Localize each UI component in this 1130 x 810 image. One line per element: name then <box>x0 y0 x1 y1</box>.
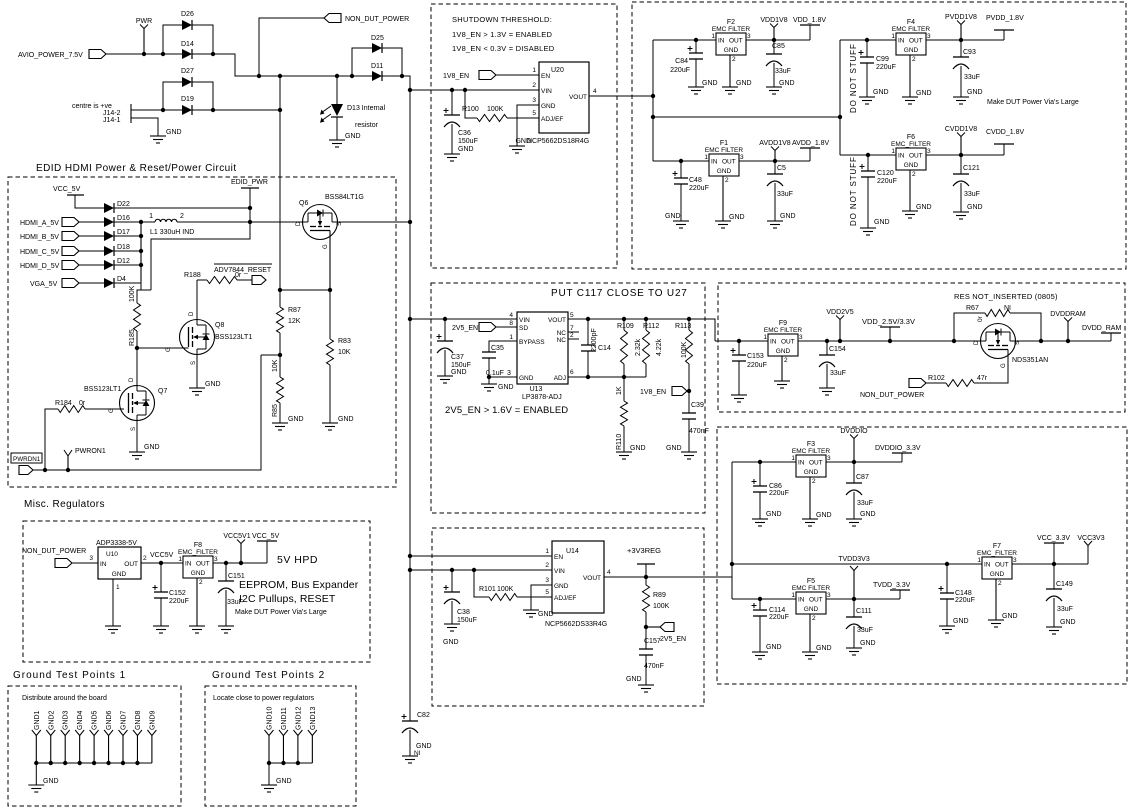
wire R89 bottom lead <box>645 612 647 649</box>
wire F1 row input <box>653 160 709 162</box>
wire D26 bypass up <box>163 25 182 54</box>
svg-text:Make DUT Power Via's Large: Make DUT Power Via's Large <box>987 99 1079 106</box>
svg-text:LP3878-ADJ: LP3878-ADJ <box>522 394 562 401</box>
svg-text:C114: C114 <box>769 607 785 614</box>
svg-text:Locate close to power regulato: Locate close to power regulators <box>213 695 315 702</box>
svg-text:GND: GND <box>345 133 361 140</box>
svg-text:C149: C149 <box>1056 581 1073 588</box>
junction pwr tap <box>888 339 892 343</box>
junction bypass right D26 <box>211 52 215 56</box>
svg-text:S: S <box>191 361 197 365</box>
svg-text:TVDD3V3: TVDD3V3 <box>838 556 870 563</box>
svg-text:GND: GND <box>916 90 932 97</box>
svg-text:R85: R85 <box>272 404 279 417</box>
junction C149 tap <box>1052 562 1056 566</box>
wire R188 right <box>237 279 252 281</box>
junction D22 row node <box>248 206 252 210</box>
junction VCC5V1 tap <box>239 561 243 565</box>
ground Q7 <box>129 451 145 453</box>
junction R100 tap <box>463 88 467 92</box>
wire R113 bottom lead <box>688 364 690 391</box>
junction gtp1 node 5 <box>106 761 110 765</box>
wire R184 to gate <box>85 408 124 410</box>
svg-text:5V HPD: 5V HPD <box>277 554 318 566</box>
wire C149 top lead <box>1053 564 1055 589</box>
wire Q6 source to bus <box>338 221 411 223</box>
svg-text:5: 5 <box>532 110 536 117</box>
svg-text:1: 1 <box>891 33 895 40</box>
wire C48 top lead <box>680 161 682 178</box>
junction bus D18 <box>139 249 143 253</box>
svg-text:Q6: Q6 <box>299 200 308 207</box>
svg-text:NON_DUT_POWER: NON_DUT_POWER <box>345 16 409 23</box>
svg-text:J14-1: J14-1 <box>103 117 121 124</box>
junction gtp1 node 3 <box>77 761 81 765</box>
svg-text:1: 1 <box>116 584 120 591</box>
svg-text:1V8_EN < 0.3V = DISABLED: 1V8_EN < 0.3V = DISABLED <box>452 44 555 53</box>
svg-text:NC: NC <box>557 337 567 344</box>
ground C35/U13 <box>481 383 497 385</box>
svg-text:C111: C111 <box>856 608 872 615</box>
junction C14 tap <box>586 317 590 321</box>
svg-text:VDD2V5: VDD2V5 <box>826 309 853 316</box>
svg-text:1: 1 <box>178 556 182 563</box>
wire C153 bottom lead <box>738 361 740 395</box>
wire F3 row input <box>732 461 796 463</box>
svg-text:4: 4 <box>607 569 611 576</box>
ground C120 <box>860 227 876 229</box>
wire D13 anode <box>336 76 338 104</box>
svg-text:1V8_EN > 1.3V = ENABLED: 1V8_EN > 1.3V = ENABLED <box>452 30 552 39</box>
svg-text:C152: C152 <box>169 590 186 597</box>
wire 3.3V feeder vertical <box>731 462 733 599</box>
junction R87 top <box>278 288 282 292</box>
svg-text:R67: R67 <box>966 305 979 312</box>
svg-text:2: 2 <box>998 580 1002 587</box>
svg-text:3: 3 <box>1013 557 1017 564</box>
svg-text:GND: GND <box>736 80 752 87</box>
svg-text:C99: C99 <box>876 56 889 63</box>
svg-text:C85: C85 <box>772 43 785 50</box>
svg-text:100K: 100K <box>497 586 514 593</box>
junction gtp1 node 0 <box>34 761 38 765</box>
wire 2V5_EN to SD <box>496 326 517 328</box>
wire L1 to Q6 <box>177 221 302 223</box>
svg-text:150uF: 150uF <box>451 362 471 369</box>
wire Q8 drain <box>196 280 198 320</box>
svg-text:IN: IN <box>770 339 777 346</box>
svg-text:D: D <box>129 377 135 382</box>
wire EDID_PWR stem / elbow <box>151 188 250 290</box>
svg-text:D17: D17 <box>117 229 130 236</box>
ground C152 <box>153 625 169 627</box>
svg-text:HDMI_D_5V: HDMI_D_5V <box>20 263 60 270</box>
ground C85 <box>766 86 782 88</box>
svg-text:+3V3REG: +3V3REG <box>627 546 661 555</box>
junction gtp2 node 2 <box>296 761 300 765</box>
wire HDMI_C_5V to D18 <box>79 250 104 252</box>
wire C151 top lead <box>225 563 227 581</box>
svg-text:2: 2 <box>143 555 147 562</box>
svg-text:VIN: VIN <box>519 317 530 324</box>
junction bus D12 <box>139 263 143 267</box>
svg-text:1: 1 <box>149 213 153 220</box>
box NCP5662 3.3V regulator <box>432 528 704 706</box>
svg-text:IN: IN <box>798 460 805 467</box>
wire to main bus <box>382 76 410 90</box>
svg-text:GND: GND <box>112 571 127 578</box>
wire C120 top lead <box>867 155 869 171</box>
svg-text:IN: IN <box>185 561 192 568</box>
svg-text:C87: C87 <box>856 474 869 481</box>
svg-text:100K: 100K <box>681 341 688 358</box>
wire VIN wire U20 <box>410 89 539 91</box>
svg-text:OUT: OUT <box>729 38 743 45</box>
wire gtp1 gnd stem <box>35 763 37 785</box>
svg-text:NCP5662DS18R4G: NCP5662DS18R4G <box>527 138 589 145</box>
wire R87-R83 tie <box>280 289 330 291</box>
junction bypass left D25 <box>350 74 354 78</box>
svg-text:GND: GND <box>953 618 969 625</box>
junction R184 on pwrdn <box>43 468 47 472</box>
wire left bus 1.8V box <box>652 40 654 161</box>
svg-text:VDD1V8: VDD1V8 <box>760 17 787 24</box>
wire D4 cathode <box>114 282 141 284</box>
wire U14 EN wire <box>410 555 552 557</box>
svg-text:C35: C35 <box>491 345 504 352</box>
svg-text:GND: GND <box>702 80 718 87</box>
svg-text:GND: GND <box>766 644 782 651</box>
svg-text:470nF: 470nF <box>644 663 664 670</box>
wire HDMI_D_5V to D12 <box>79 264 104 266</box>
svg-text:2: 2 <box>812 615 816 622</box>
svg-text:EN: EN <box>541 73 550 80</box>
svg-text:Ground Test Points 1: Ground Test Points 1 <box>13 670 126 681</box>
wire C114 bottom lead <box>759 616 761 652</box>
svg-text:GND: GND <box>276 778 292 785</box>
svg-text:C5: C5 <box>777 165 786 172</box>
svg-text:3: 3 <box>532 97 536 104</box>
wire C36 top lead <box>451 90 453 115</box>
svg-text:BYPASS: BYPASS <box>519 339 545 346</box>
wire C14 bottom lead <box>587 351 589 377</box>
svg-text:2200pF: 2200pF <box>591 328 598 352</box>
svg-text:1: 1 <box>763 334 767 341</box>
wire C5 top lead <box>774 161 776 174</box>
wire gtp1 bus <box>36 762 152 764</box>
svg-text:GND: GND <box>766 511 782 518</box>
svg-text:12K: 12K <box>288 318 301 325</box>
junction R87/R85 node <box>278 353 282 357</box>
svg-text:BSS123LT1: BSS123LT1 <box>84 386 121 393</box>
wire R100 to ADJ <box>507 117 539 119</box>
svg-text:6: 6 <box>570 369 574 376</box>
junction C154 tap <box>825 339 829 343</box>
svg-text:GND: GND <box>1002 613 1018 620</box>
svg-text:C153: C153 <box>747 353 764 360</box>
svg-text:L1 330uH IND: L1 330uH IND <box>150 229 194 236</box>
junction DVDDRAM tap <box>1066 339 1070 343</box>
ground C36 <box>444 153 460 155</box>
svg-text:EN: EN <box>554 554 563 561</box>
svg-text:2: 2 <box>732 56 736 63</box>
svg-text:4: 4 <box>593 88 597 95</box>
svg-text:AVIO_POWER_7.5V: AVIO_POWER_7.5V <box>18 52 83 59</box>
svg-text:VIN: VIN <box>554 568 565 575</box>
box EDID HDMI Power & Reset/Power Circuit <box>8 177 396 487</box>
wire F4 row input <box>840 39 896 41</box>
wire C120 bottom lead <box>867 177 869 228</box>
junction C35/gnd node <box>487 375 491 379</box>
op-amp U13 LP3878-ADJ <box>517 312 568 384</box>
wire U13 VOUT <box>568 319 715 341</box>
svg-text:S: S <box>337 222 343 226</box>
junction C5 tap <box>773 159 777 163</box>
svg-text:C37: C37 <box>451 354 464 361</box>
svg-text:2: 2 <box>570 332 574 339</box>
svg-text:2: 2 <box>180 213 184 220</box>
svg-text:F7: F7 <box>993 543 1001 550</box>
junction bypass right D25 <box>400 74 404 78</box>
wire vertical to EDID box <box>279 76 281 290</box>
wire C114 top lead <box>759 599 761 610</box>
svg-text:PWRDN1: PWRDN1 <box>13 456 41 463</box>
svg-text:VCC_5V: VCC_5V <box>252 533 280 540</box>
ground C38 <box>444 623 460 625</box>
wire C5 bottom lead <box>774 183 776 221</box>
wire D18 cathode <box>114 250 141 252</box>
svg-text:GND: GND <box>780 213 796 220</box>
svg-text:C36: C36 <box>458 130 471 137</box>
wire BYPASS wire <box>489 341 517 352</box>
svg-text:220uF: 220uF <box>747 362 767 369</box>
wire 3.3V bus <box>732 563 982 565</box>
diode D19 <box>182 105 192 115</box>
svg-text:3: 3 <box>827 592 831 599</box>
wire R67 left leg <box>954 313 985 341</box>
svg-text:GND: GND <box>519 375 534 382</box>
svg-text:R83: R83 <box>338 338 351 345</box>
junction 2V5_EN node <box>644 625 648 629</box>
svg-text:100K: 100K <box>487 106 504 113</box>
svg-text:GND: GND <box>191 570 206 577</box>
wire D22 cathode row <box>114 207 250 209</box>
wire C121 bottom lead <box>960 183 962 212</box>
svg-text:47r: 47r <box>977 375 988 382</box>
ground C86 <box>752 518 768 520</box>
svg-text:GND: GND <box>338 416 354 423</box>
svg-text:GND: GND <box>626 676 642 683</box>
svg-text:PVDD1V8: PVDD1V8 <box>945 14 977 21</box>
svg-text:33uF: 33uF <box>777 191 793 198</box>
svg-text:GND: GND <box>498 384 514 391</box>
svg-text:D: D <box>974 340 980 345</box>
wire F5 row input <box>732 598 796 600</box>
svg-text:D: D <box>296 221 302 226</box>
wire R188 left <box>197 279 207 281</box>
svg-text:VOUT: VOUT <box>583 575 601 582</box>
junction VCC5V node <box>159 561 163 565</box>
svg-text:R184: R184 <box>55 400 72 407</box>
diode D17 <box>104 231 114 241</box>
junction C121 tap <box>959 153 963 157</box>
svg-text:R112: R112 <box>643 323 659 330</box>
ground U20 <box>509 145 525 147</box>
svg-text:220uF: 220uF <box>670 67 690 74</box>
svg-text:IN: IN <box>718 38 725 45</box>
svg-text:33uF: 33uF <box>964 74 980 81</box>
svg-text:EDID HDMI Power & Reset/Power: EDID HDMI Power & Reset/Power Circuit <box>36 163 237 174</box>
svg-text:EMC_FILTER: EMC_FILTER <box>977 550 1017 557</box>
svg-text:F1: F1 <box>720 140 728 147</box>
svg-text:D11: D11 <box>371 63 383 70</box>
svg-text:IN: IN <box>898 38 905 45</box>
ground C39 <box>681 451 697 453</box>
wire DVDDIO_3.3V stem <box>901 453 903 462</box>
svg-text:VIN: VIN <box>541 88 552 95</box>
junction R109 top <box>622 317 626 321</box>
wire VDD_2.5V stem <box>889 327 891 341</box>
svg-text:3: 3 <box>827 455 831 462</box>
svg-text:1: 1 <box>711 33 715 40</box>
svg-text:F6: F6 <box>907 134 915 141</box>
wire C38 bottom lead <box>451 601 453 624</box>
svg-text:C39: C39 <box>691 402 704 409</box>
diode D14 <box>182 49 192 59</box>
svg-text:1: 1 <box>532 67 536 74</box>
svg-text:GND: GND <box>1060 619 1076 626</box>
svg-text:GND: GND <box>967 204 983 211</box>
junction C114 tap <box>758 597 762 601</box>
junction C153 tap <box>737 339 741 343</box>
svg-text:OUT: OUT <box>722 159 736 166</box>
wire D14 cathode to corner <box>192 54 372 76</box>
wire C149 bottom lead <box>1053 598 1055 627</box>
wire D27 bypass up <box>163 82 182 110</box>
svg-text:OUT: OUT <box>809 460 823 467</box>
junction C84 tap <box>694 38 698 42</box>
ground C84 <box>688 86 704 88</box>
cathode bus vertical <box>140 222 142 281</box>
wire U13 gnd pin <box>489 376 517 378</box>
svg-text:D: D <box>189 311 195 316</box>
ground C37 <box>437 375 453 377</box>
ground U14 <box>523 609 539 611</box>
wire C39 gnd lead <box>688 419 690 452</box>
svg-text:F5: F5 <box>807 578 815 585</box>
junction gtp1 node 2 <box>63 761 67 765</box>
ground C148 <box>939 625 955 627</box>
svg-text:GND: GND <box>904 162 919 169</box>
svg-text:C157: C157 <box>644 638 661 645</box>
svg-text:GND6: GND6 <box>106 710 113 730</box>
svg-text:centre is +ve: centre is +ve <box>72 103 112 110</box>
svg-text:33uF: 33uF <box>857 627 873 634</box>
wire CVDD_1.8V stem <box>1003 144 1005 155</box>
svg-text:1K: 1K <box>616 386 623 395</box>
wire C99 bottom lead <box>866 63 868 97</box>
svg-text:U10: U10 <box>106 551 118 558</box>
wire HDMI_A_5V to D16 <box>79 221 104 223</box>
wire C87 top lead <box>853 462 855 483</box>
svg-text:1: 1 <box>791 592 795 599</box>
junction C36 tap <box>450 88 454 92</box>
svg-text:1V8_EN: 1V8_EN <box>443 73 469 80</box>
wire R83 top lead <box>329 290 331 339</box>
svg-text:R110: R110 <box>616 434 623 450</box>
EMC filter F1 <box>709 154 739 176</box>
ground C48 <box>673 220 689 222</box>
svg-text:VDD_2.5V/3.3V: VDD_2.5V/3.3V <box>862 317 915 326</box>
junction C14 adj node <box>586 375 590 379</box>
svg-text:Q7: Q7 <box>158 388 167 395</box>
svg-text:GND: GND <box>451 369 467 376</box>
svg-text:2: 2 <box>532 82 536 89</box>
svg-text:R109: R109 <box>617 323 634 330</box>
junction gtp2 node 0 <box>267 761 271 765</box>
EMC filter F7 <box>982 557 1012 579</box>
wire F6 row input <box>840 154 896 156</box>
wire U10 gnd pin <box>112 579 114 626</box>
svg-text:IN: IN <box>898 153 905 160</box>
svg-text:GND: GND <box>554 583 569 590</box>
junction gtp2 node 1 <box>281 761 285 765</box>
svg-text:OUT: OUT <box>781 339 795 346</box>
svg-text:GND12: GND12 <box>295 707 302 730</box>
svg-text:10K: 10K <box>338 349 351 356</box>
svg-text:R185: R185 <box>129 329 136 346</box>
svg-text:2V5_EN: 2V5_EN <box>660 636 686 643</box>
wire C93 top lead <box>960 40 962 57</box>
ground R83 <box>322 422 338 424</box>
svg-text:VDD_1.8V: VDD_1.8V <box>793 17 826 24</box>
svg-text:G: G <box>1001 363 1007 368</box>
svg-text:PUT C117 CLOSE TO U27: PUT C117 CLOSE TO U27 <box>551 288 688 299</box>
svg-text:GND: GND <box>990 571 1005 578</box>
svg-text:D25: D25 <box>371 35 384 42</box>
wire F2 row input <box>653 39 716 41</box>
svg-text:8: 8 <box>509 320 513 327</box>
svg-text:C82: C82 <box>417 712 430 719</box>
wire U14 gnd pin <box>531 585 552 610</box>
svg-text:DVDDRAM: DVDDRAM <box>1050 311 1086 318</box>
svg-text:GND1: GND1 <box>34 710 41 730</box>
svg-text:3: 3 <box>89 555 93 562</box>
ground C93 <box>953 96 969 98</box>
junction bypass right D27 <box>211 108 215 112</box>
svg-text:F8: F8 <box>194 542 202 549</box>
svg-text:3: 3 <box>747 33 751 40</box>
wire VCC_3.3V stem <box>1053 543 1055 564</box>
wire R101 to ADJ <box>517 596 552 598</box>
svg-text:C93: C93 <box>963 49 976 56</box>
svg-text:GND10: GND10 <box>267 707 274 730</box>
wire elbow to R185 <box>137 290 151 303</box>
svg-text:Distribute around the board: Distribute around the board <box>22 695 107 702</box>
junction U14 en tap <box>408 554 412 558</box>
wire C84 bottom lead <box>695 59 697 87</box>
wire U20 VOUT <box>589 95 653 97</box>
wire U20 gnd pin <box>517 105 539 146</box>
ground C121 <box>953 211 969 213</box>
wire U14 VIN wire <box>410 569 552 571</box>
wire R67 right leg <box>1010 313 1041 341</box>
junction gtp1 node 6 <box>121 761 125 765</box>
wire VDD_1.8V stem <box>809 25 811 40</box>
svg-text:SHUTDOWN THRESHOLD:: SHUTDOWN THRESHOLD: <box>452 15 552 24</box>
diode D22 <box>104 203 114 213</box>
wire D19 cathode to bus <box>192 109 280 111</box>
